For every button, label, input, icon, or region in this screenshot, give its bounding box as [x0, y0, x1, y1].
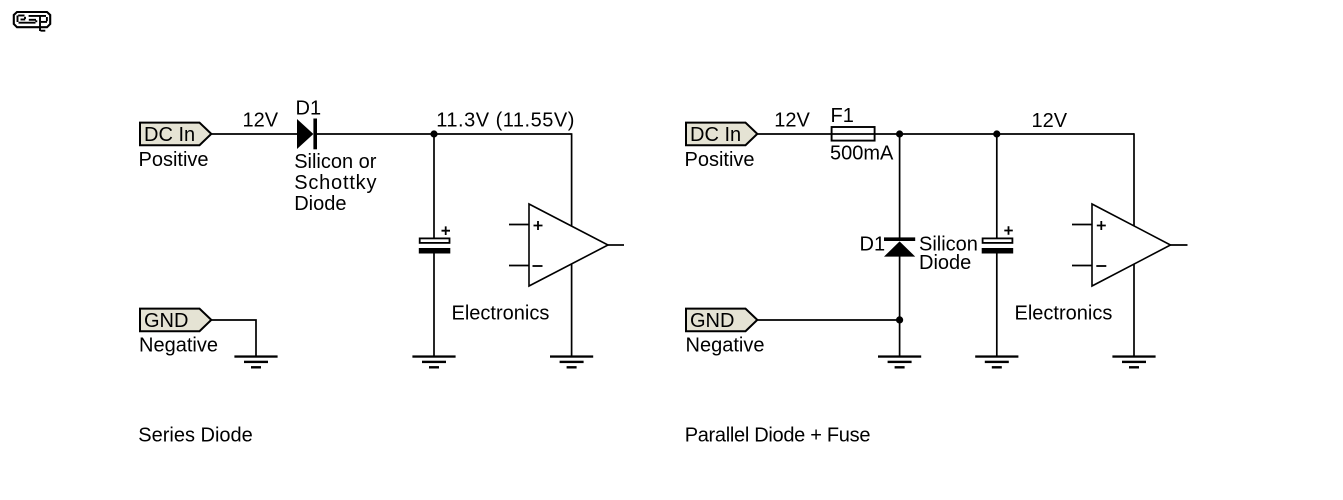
svg-text:Schottky: Schottky: [294, 172, 377, 194]
svg-text:Silicon or: Silicon or: [294, 151, 377, 173]
svg-text:Positive: Positive: [139, 149, 209, 171]
svg-text:D1: D1: [860, 234, 886, 256]
svg-text:12V: 12V: [774, 110, 810, 132]
svg-text:Negative: Negative: [139, 335, 218, 357]
ground (diode): [878, 355, 921, 368]
ground (capacitor right): [975, 355, 1018, 368]
svg-text:GND: GND: [690, 310, 734, 332]
wire capacitor to ground: [433, 254, 435, 357]
svg-text:11.3V (11.55V): 11.3V (11.55V): [436, 110, 575, 132]
capacitor C2: [982, 226, 1014, 253]
wire tag through fuse to corner: [757, 133, 1134, 135]
svg-text:Electronics: Electronics: [452, 302, 550, 324]
diode D1: [297, 119, 317, 150]
svg-text:DC In: DC In: [690, 124, 741, 146]
svg-text:Electronics: Electronics: [1015, 303, 1113, 325]
ESP logo: [14, 12, 50, 31]
tag GND (Negative) right: [686, 309, 757, 332]
op-amp U1: [509, 204, 624, 286]
svg-text:Diode: Diode: [919, 252, 971, 274]
ground (op-amp rail right): [1112, 355, 1155, 368]
wire GND tag to junction: [757, 319, 899, 321]
wire junction to capacitor right: [996, 134, 998, 238]
fuse F1: [832, 127, 875, 141]
ground (op-amp rail): [550, 355, 593, 368]
node junction at capacitor: [993, 130, 1000, 137]
svg-text:12V: 12V: [243, 110, 279, 132]
label Silicon Diode: [919, 234, 978, 275]
node junction after fuse: [896, 130, 903, 137]
wire capacitor to ground right: [996, 254, 998, 357]
svg-text:Parallel Diode + Fuse: Parallel Diode + Fuse: [685, 424, 871, 446]
svg-text:F1: F1: [831, 105, 854, 127]
svg-text:Diode: Diode: [294, 193, 346, 215]
op-amp U2: [1072, 204, 1188, 286]
node junction GND: [896, 316, 903, 323]
svg-text:GND: GND: [144, 310, 188, 332]
svg-text:D1: D1: [296, 98, 322, 120]
svg-text:Series Diode: Series Diode: [138, 424, 253, 446]
label Silicon or Schottky Diode: [294, 151, 377, 215]
tag DC In (Positive) right: [686, 123, 757, 146]
svg-text:12V: 12V: [1032, 110, 1068, 132]
tag DC In (Positive): [140, 123, 211, 146]
node junction: [430, 130, 437, 137]
wire junction to capacitor: [433, 134, 435, 238]
capacitor C1: [419, 226, 451, 253]
wire diode to corner: [317, 133, 572, 135]
svg-text:Negative: Negative: [686, 335, 765, 357]
svg-text:DC In: DC In: [144, 124, 195, 146]
svg-text:500mA: 500mA: [830, 143, 894, 165]
wire GND tag to ground: [211, 320, 256, 356]
wire rail down to diode: [899, 134, 901, 238]
wire diode to ground: [899, 256, 901, 356]
wire tag to diode D1: [211, 133, 297, 135]
wire rail down (behind op-amp): [571, 133, 573, 356]
diode D1 (shunt): [884, 237, 915, 256]
ground (GND tag): [234, 355, 277, 368]
wire rail down right (behind op-amp): [1133, 133, 1135, 356]
svg-text:Positive: Positive: [685, 149, 755, 171]
tag GND (Negative): [140, 309, 211, 332]
ground (capacitor): [412, 355, 455, 368]
